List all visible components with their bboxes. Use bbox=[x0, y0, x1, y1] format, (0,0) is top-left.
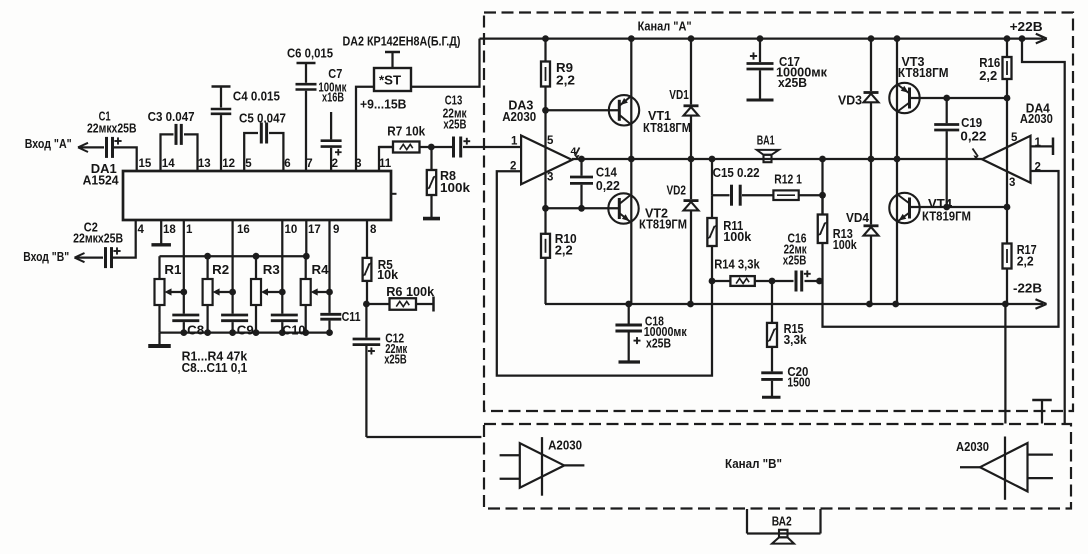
svg-text:VD4: VD4 bbox=[846, 210, 870, 225]
svg-text:x25В: x25В bbox=[778, 75, 807, 90]
svg-text:+9...15В: +9...15В bbox=[360, 97, 407, 112]
svg-text:100k: 100k bbox=[723, 229, 752, 244]
svg-text:C5 0.047: C5 0.047 bbox=[239, 111, 286, 126]
svg-text:R7 10k: R7 10k bbox=[387, 123, 426, 138]
svg-text:КТ818ГМ: КТ818ГМ bbox=[643, 120, 691, 135]
svg-text:100k: 100k bbox=[440, 180, 471, 195]
svg-text:DA2 КР142ЕН8А(Б.Г.Д): DA2 КР142ЕН8А(Б.Г.Д) bbox=[343, 33, 461, 48]
svg-text:2,2: 2,2 bbox=[1017, 253, 1034, 268]
svg-text:R2: R2 bbox=[212, 262, 229, 277]
svg-text:100k: 100k bbox=[833, 237, 858, 252]
svg-text:R6 100k: R6 100k bbox=[386, 284, 435, 299]
svg-text:4: 4 bbox=[138, 224, 145, 236]
svg-text:C3 0.047: C3 0.047 bbox=[148, 109, 195, 124]
svg-text:0,22: 0,22 bbox=[596, 178, 620, 193]
svg-text:13: 13 bbox=[198, 158, 211, 170]
svg-text:A2030: A2030 bbox=[1020, 111, 1053, 126]
svg-text:BA1: BA1 bbox=[757, 133, 775, 148]
svg-text:C7: C7 bbox=[328, 66, 342, 81]
svg-text:C9: C9 bbox=[237, 323, 254, 338]
svg-text:2: 2 bbox=[1035, 162, 1041, 174]
svg-text:9: 9 bbox=[333, 224, 339, 236]
svg-text:2,2: 2,2 bbox=[979, 68, 997, 83]
svg-text:ВА2: ВА2 bbox=[772, 513, 792, 528]
svg-text:22мкх25В: 22мкх25В bbox=[73, 231, 123, 246]
svg-text:1500: 1500 bbox=[787, 375, 810, 390]
svg-text:С11: С11 bbox=[342, 309, 361, 324]
svg-text:-22В: -22В bbox=[1013, 280, 1042, 295]
svg-text:2,2: 2,2 bbox=[555, 242, 573, 257]
svg-text:КТ818ГМ: КТ818ГМ bbox=[898, 65, 949, 80]
svg-text:10k: 10k bbox=[377, 267, 399, 282]
svg-text:C6 0,015: C6 0,015 bbox=[287, 46, 333, 61]
svg-text:Канал "В": Канал "В" bbox=[725, 456, 782, 471]
svg-text:R3: R3 bbox=[263, 262, 280, 277]
svg-text:A2030: A2030 bbox=[548, 437, 582, 452]
svg-text:3: 3 bbox=[355, 158, 361, 170]
svg-text:С15 0.22: С15 0.22 bbox=[713, 165, 760, 180]
svg-text:VD2: VD2 bbox=[667, 182, 687, 197]
svg-text:x25В: x25В bbox=[384, 352, 407, 367]
svg-text:C4 0.015: C4 0.015 bbox=[233, 88, 280, 103]
svg-text:3: 3 bbox=[547, 172, 553, 184]
svg-text:VD3: VD3 bbox=[838, 92, 862, 107]
svg-text:R4: R4 bbox=[312, 262, 330, 277]
svg-text:R12 1: R12 1 bbox=[774, 172, 802, 187]
svg-text:2: 2 bbox=[332, 158, 338, 170]
svg-text:7: 7 bbox=[306, 158, 312, 170]
svg-text:A2030: A2030 bbox=[502, 109, 536, 124]
svg-text:*ST: *ST bbox=[379, 73, 401, 88]
svg-text:+22В: +22В bbox=[1010, 19, 1043, 34]
svg-text:8: 8 bbox=[370, 224, 377, 236]
svg-text:11: 11 bbox=[379, 158, 392, 170]
svg-text:x25В: x25В bbox=[783, 253, 807, 268]
svg-text:Вход "В": Вход "В" bbox=[23, 249, 69, 264]
svg-text:6: 6 bbox=[284, 158, 290, 170]
svg-text:5: 5 bbox=[245, 158, 252, 170]
svg-text:22мкх25В: 22мкх25В bbox=[87, 121, 137, 136]
svg-text:Вход "А": Вход "А" bbox=[25, 136, 72, 151]
svg-text:Канал "А": Канал "А" bbox=[638, 18, 692, 33]
svg-text:5: 5 bbox=[1011, 132, 1018, 144]
svg-text:R14 3,3k: R14 3,3k bbox=[714, 257, 760, 272]
svg-text:x16В: x16В bbox=[322, 90, 344, 105]
svg-text:16: 16 bbox=[237, 224, 250, 236]
svg-text:A2030: A2030 bbox=[956, 439, 989, 454]
svg-text:A1524: A1524 bbox=[83, 173, 120, 188]
svg-text:10: 10 bbox=[285, 224, 298, 236]
svg-text:2,2: 2,2 bbox=[556, 72, 575, 87]
svg-text:КТ819ГМ: КТ819ГМ bbox=[922, 209, 971, 224]
svg-text:3,3k: 3,3k bbox=[784, 332, 808, 347]
svg-text:1: 1 bbox=[511, 136, 518, 148]
svg-text:x25В: x25В bbox=[646, 336, 671, 351]
svg-text:17: 17 bbox=[308, 224, 321, 236]
svg-text:1: 1 bbox=[186, 224, 193, 236]
svg-text:5: 5 bbox=[547, 135, 554, 147]
svg-text:0,22: 0,22 bbox=[960, 129, 986, 144]
svg-text:15: 15 bbox=[139, 158, 152, 170]
svg-text:C10: C10 bbox=[282, 323, 305, 338]
svg-text:18: 18 bbox=[163, 224, 176, 236]
svg-text:С8...С11 0,1: С8...С11 0,1 bbox=[182, 360, 248, 375]
svg-text:R1: R1 bbox=[164, 262, 181, 277]
svg-text:x25В: x25В bbox=[443, 116, 466, 131]
svg-text:12: 12 bbox=[222, 158, 235, 170]
svg-text:C8: C8 bbox=[187, 323, 204, 338]
svg-text:КТ819ГМ: КТ819ГМ bbox=[639, 216, 687, 231]
svg-text:VD1: VD1 bbox=[669, 87, 689, 102]
svg-text:14: 14 bbox=[162, 158, 175, 170]
svg-text:3: 3 bbox=[1009, 177, 1015, 189]
